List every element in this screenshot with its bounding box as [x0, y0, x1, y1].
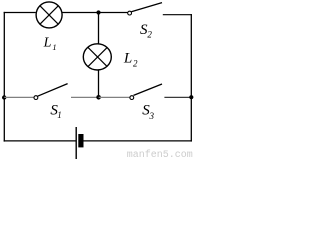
wire bottom-right segment — [83, 140, 192, 142]
lamp L2 — [83, 44, 111, 70]
wire middle right segment — [164, 96, 191, 98]
svg-text:3: 3 — [149, 111, 155, 121]
wire L2 branch upper — [98, 13, 100, 45]
svg-text:2: 2 — [147, 30, 152, 40]
wire top middle segment — [62, 12, 128, 14]
switch S3 — [130, 84, 162, 100]
switch S2 — [128, 3, 162, 15]
lamp L1 — [36, 2, 62, 28]
wire L2 branch lower — [98, 70, 100, 97]
switch S1 — [34, 84, 68, 100]
svg-text:1: 1 — [57, 110, 62, 120]
wire left rail — [3, 12, 5, 142]
node junction B (L2 branch / middle wire) — [96, 95, 101, 100]
wire top-left segment — [4, 12, 36, 14]
wire middle segment B to S3 — [99, 96, 130, 98]
wire middle segment S1 to B — [71, 96, 99, 98]
svg-text:manfen5.com: manfen5.com — [127, 149, 193, 159]
wire right rail — [190, 14, 192, 142]
node junction D (right rail / middle wire) — [189, 95, 193, 99]
wire bottom-left segment — [4, 140, 76, 142]
wire middle left segment — [4, 96, 34, 98]
svg-text:1: 1 — [52, 42, 56, 52]
node junction C (left rail / middle wire) — [2, 95, 6, 99]
svg-text:L: L — [43, 36, 52, 51]
svg-text:L: L — [123, 51, 132, 67]
wire top-right segment — [163, 14, 192, 16]
battery negative plate (thick) — [78, 134, 83, 147]
svg-text:2: 2 — [133, 59, 138, 69]
battery positive plate (thin) — [76, 127, 77, 159]
node junction A (top) — [96, 10, 100, 14]
